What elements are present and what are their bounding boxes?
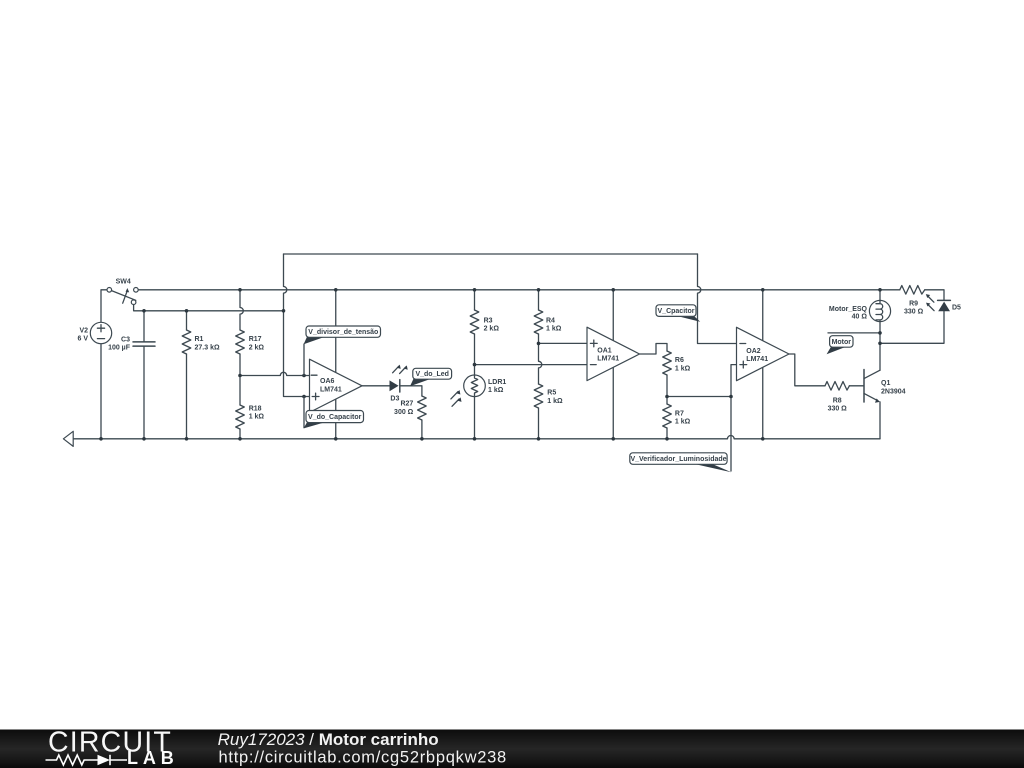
svg-text:R4: R4	[546, 317, 555, 324]
svg-text:300 Ω: 300 Ω	[394, 409, 414, 416]
svg-text:http://circuitlab.com/cg52rbpq: http://circuitlab.com/cg52rbpqkw238	[219, 749, 507, 767]
svg-text:OA6: OA6	[320, 378, 335, 385]
svg-text:LDR1: LDR1	[488, 379, 506, 386]
svg-text:R6: R6	[675, 357, 684, 364]
svg-text:C3: C3	[121, 337, 130, 344]
svg-text:R18: R18	[249, 405, 262, 412]
svg-text:R8: R8	[833, 398, 842, 405]
svg-text:27.3 kΩ: 27.3 kΩ	[195, 344, 220, 351]
svg-text:2 kΩ: 2 kΩ	[484, 326, 500, 333]
svg-text:1 kΩ: 1 kΩ	[249, 414, 265, 421]
svg-text:LAB: LAB	[127, 748, 179, 768]
svg-text:R1: R1	[195, 336, 204, 343]
svg-text:1 kΩ: 1 kΩ	[675, 419, 691, 426]
svg-text:Motor_ESQ: Motor_ESQ	[829, 306, 868, 313]
svg-text:V_do_Led: V_do_Led	[415, 371, 448, 378]
svg-text:1 kΩ: 1 kΩ	[675, 366, 691, 373]
svg-text:Q1: Q1	[881, 380, 890, 387]
svg-text:R27: R27	[400, 401, 413, 408]
svg-text:OA1: OA1	[597, 347, 612, 354]
svg-text:40 Ω: 40 Ω	[852, 314, 868, 321]
svg-text:R7: R7	[675, 410, 684, 417]
svg-text:V_divisor_de_tensão: V_divisor_de_tensão	[308, 329, 378, 336]
svg-text:1 kΩ: 1 kΩ	[488, 387, 504, 394]
svg-text:SW4: SW4	[116, 279, 131, 286]
svg-text:Motor: Motor	[832, 339, 852, 346]
svg-text:100 µF: 100 µF	[108, 345, 131, 352]
svg-text:2 kΩ: 2 kΩ	[249, 344, 265, 351]
svg-text:R3: R3	[484, 317, 493, 324]
svg-text:1 kΩ: 1 kΩ	[547, 398, 563, 405]
svg-text:Ruy172023 / Motor carrinho: Ruy172023 / Motor carrinho	[218, 730, 439, 749]
svg-text:LM741: LM741	[597, 356, 619, 363]
svg-text:V_Cpacitor: V_Cpacitor	[658, 308, 695, 315]
svg-text:6 V: 6 V	[77, 336, 88, 343]
svg-text:V_Verificador_Luminosidade: V_Verificador_Luminosidade	[630, 456, 726, 463]
svg-text:V_do_Capacitor: V_do_Capacitor	[308, 414, 362, 421]
svg-text:R5: R5	[547, 390, 556, 397]
svg-text:LM741: LM741	[746, 356, 768, 363]
svg-text:330 Ω: 330 Ω	[828, 406, 848, 413]
svg-text:D3: D3	[390, 395, 399, 402]
svg-text:OA2: OA2	[746, 348, 761, 355]
svg-text:2N3904: 2N3904	[881, 388, 906, 395]
svg-text:R17: R17	[249, 336, 262, 343]
svg-text:D5: D5	[952, 304, 961, 311]
svg-text:V2: V2	[79, 327, 88, 334]
svg-text:1 kΩ: 1 kΩ	[546, 326, 562, 333]
svg-text:LM741: LM741	[320, 386, 342, 393]
svg-text:R9: R9	[909, 300, 918, 307]
svg-text:330 Ω: 330 Ω	[904, 309, 924, 316]
